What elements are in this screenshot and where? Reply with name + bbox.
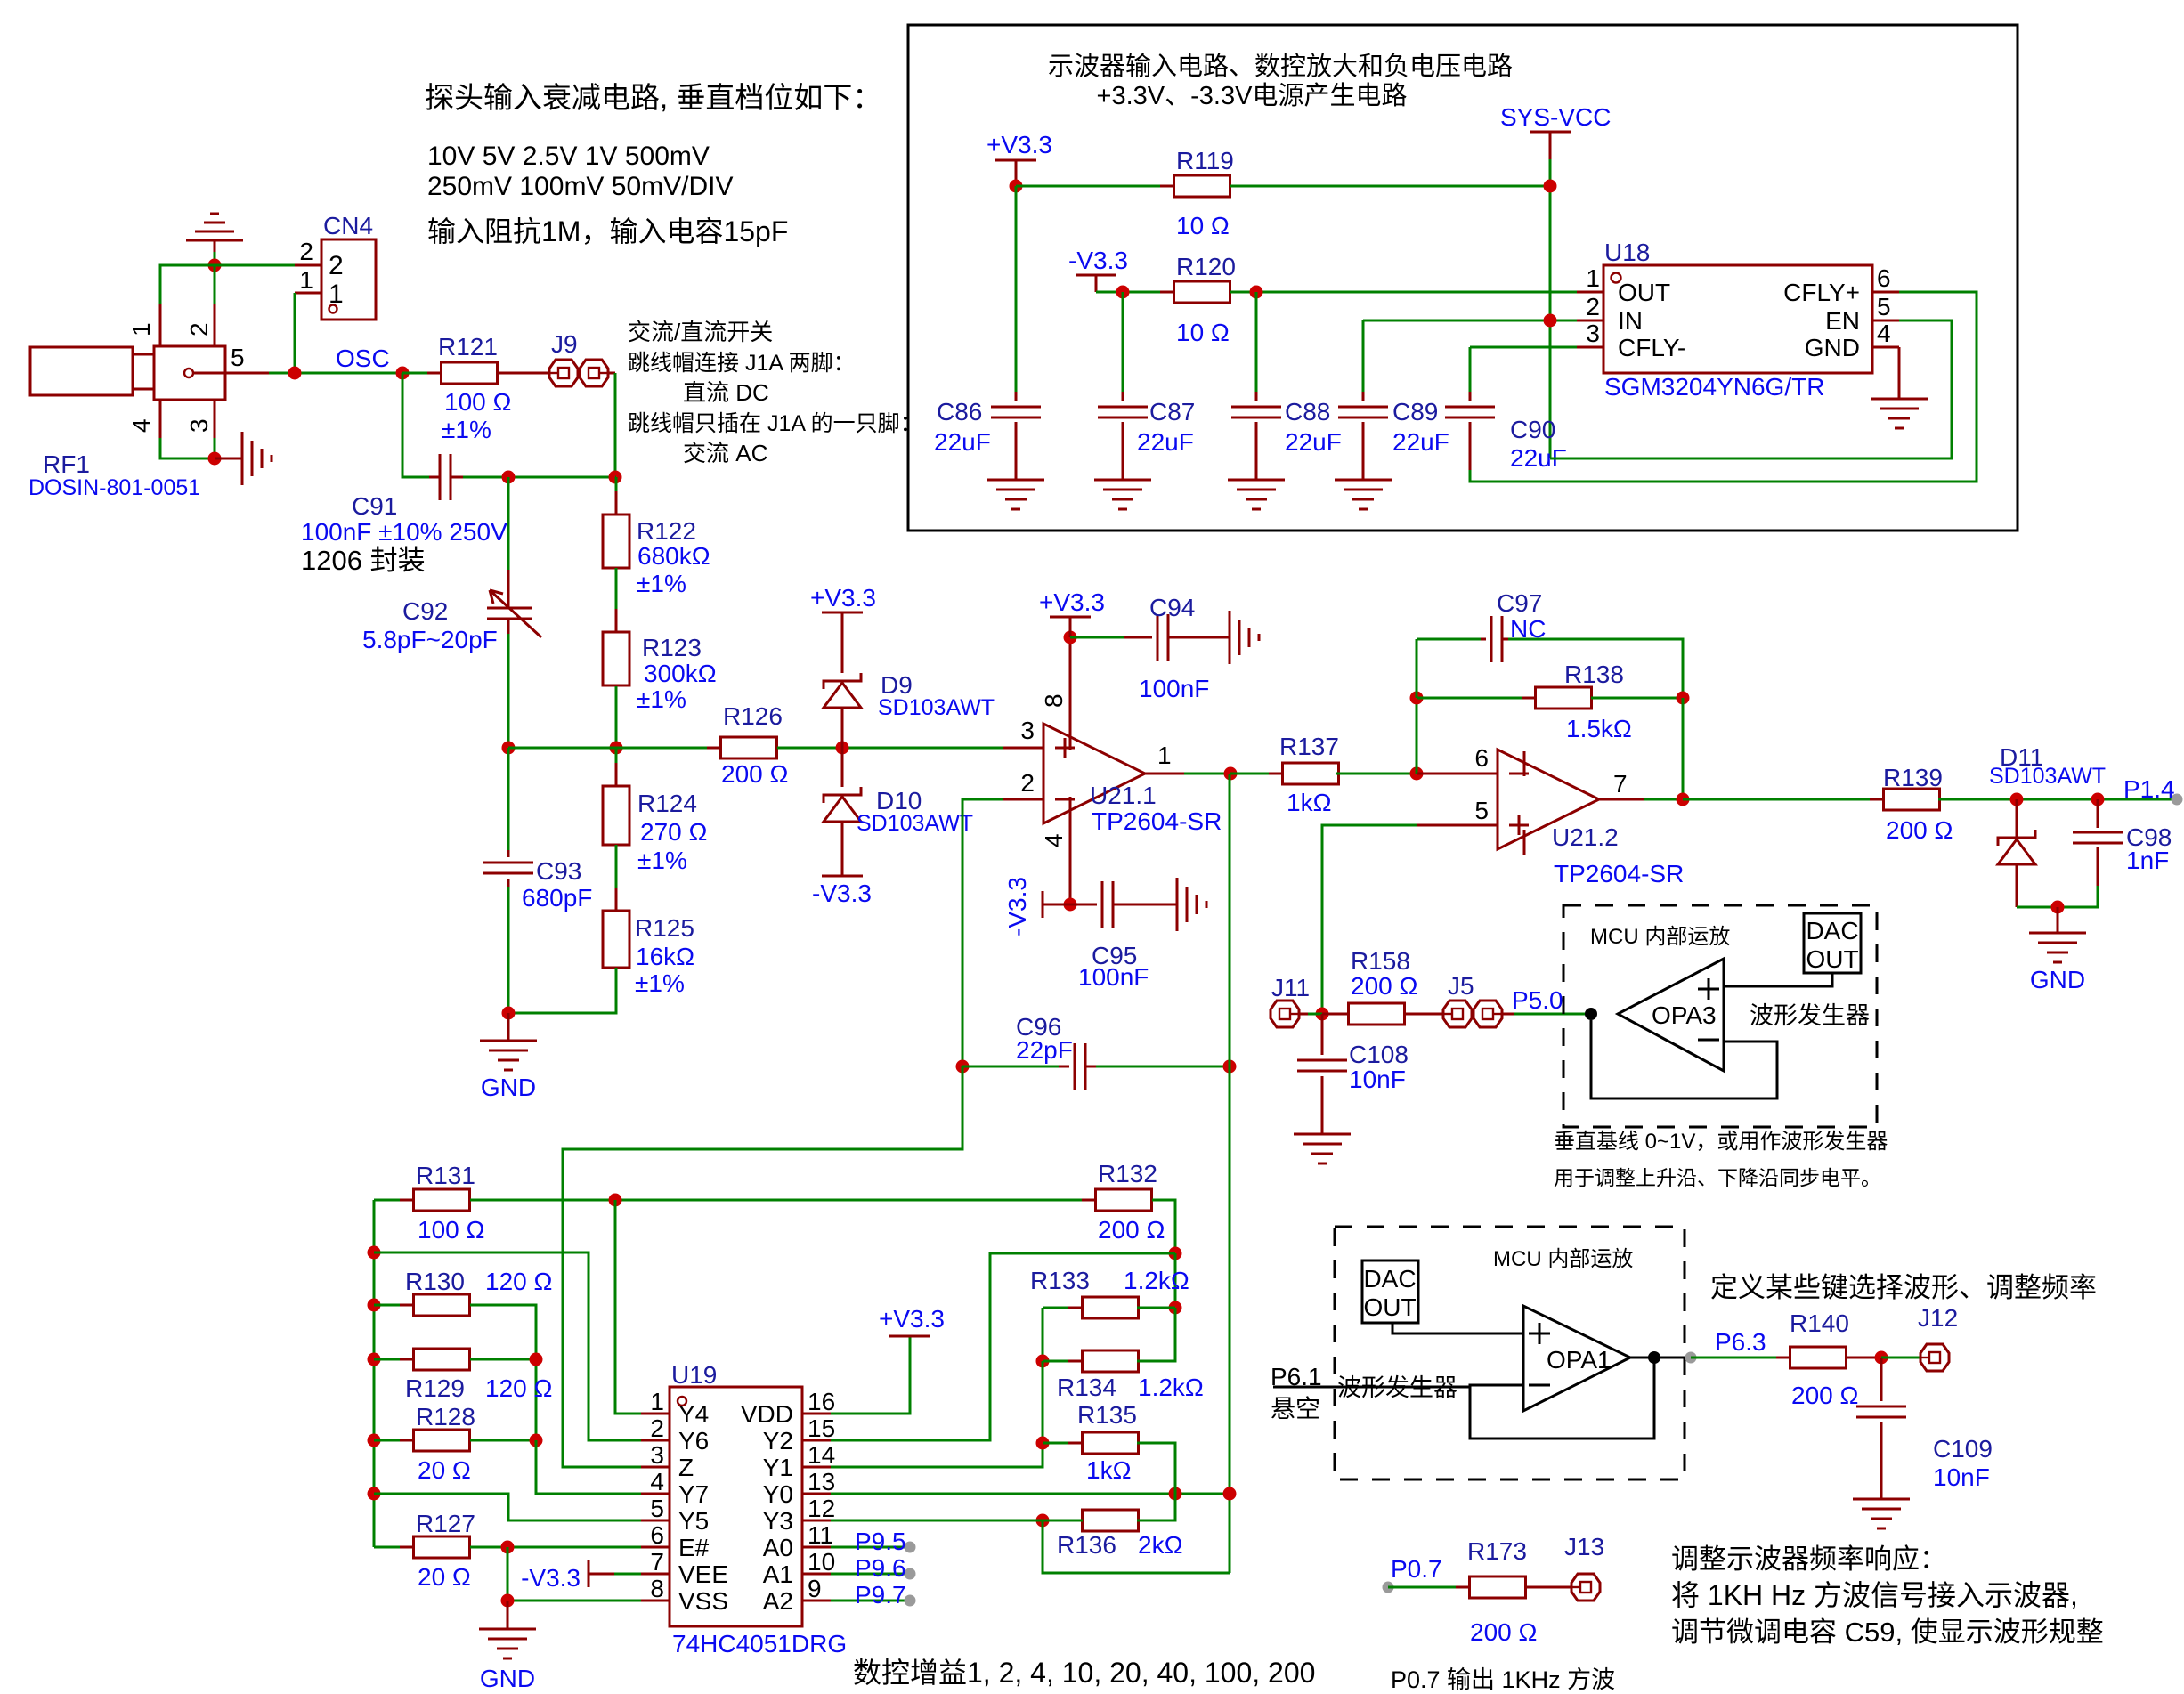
resistor R121 — [427, 372, 511, 375]
svg-text:P0.7 输出 1KHz 方波: P0.7 输出 1KHz 方波 — [1391, 1666, 1615, 1693]
wire — [1308, 1013, 1322, 1016]
op-amp OPA1 (points right) — [1523, 1306, 1630, 1411]
svg-text:R129: R129 — [405, 1374, 465, 1402]
wire Y3 to R136 — [831, 1520, 1043, 1522]
resistor R133 — [1068, 1307, 1152, 1309]
wire ground to node A — [214, 252, 216, 265]
C97 left lead — [1481, 638, 1486, 641]
C92 top lead — [507, 570, 510, 608]
C91 right lead — [451, 476, 463, 479]
J11 lead — [1299, 1013, 1308, 1016]
jumper pad J5 pin1 — [1443, 1001, 1472, 1027]
wire OSC down to C91 — [402, 373, 429, 477]
svg-text:OPA1: OPA1 — [1547, 1346, 1612, 1374]
wire R133 left — [1043, 1307, 1083, 1309]
lead -V3.3 — [589, 1573, 614, 1576]
junction C87 tap — [1116, 286, 1130, 299]
C88 bottom lead — [1255, 422, 1258, 480]
svg-text:MCU 内部运放: MCU 内部运放 — [1493, 1247, 1633, 1271]
ground lead — [2057, 907, 2059, 933]
wire R131 to R132 — [470, 1199, 1096, 1202]
wire C97 left — [1417, 638, 1481, 641]
U18 pin1 stub — [1577, 291, 1603, 294]
diode D11 SD103AWT — [1998, 830, 2035, 846]
svg-text:R123: R123 — [642, 634, 702, 661]
junction VSS node — [501, 1594, 515, 1608]
svg-text:22pF: 22pF — [1016, 1036, 1073, 1064]
U19 pin1 stub — [641, 1413, 670, 1415]
resistor R158 — [1335, 1013, 1418, 1016]
junction rail R128 — [368, 1434, 381, 1447]
svg-text:SYS-VCC: SYS-VCC — [1500, 103, 1611, 131]
RF1 pin2 lead — [214, 304, 216, 346]
resistor R129 — [400, 1358, 483, 1361]
wire C90 top — [1469, 347, 1472, 392]
RF1 pin5 lead — [193, 372, 269, 375]
U18 pin3 stub — [1577, 346, 1603, 349]
svg-text:22uF: 22uF — [1137, 428, 1194, 456]
svg-text:±1%: ±1% — [637, 685, 686, 713]
wire R135 left — [1043, 1442, 1083, 1445]
wire C86 top — [1015, 186, 1018, 392]
resistor R140 — [1776, 1357, 1860, 1359]
svg-text:DAC: DAC — [1363, 1265, 1416, 1293]
svg-text:数控增益1, 2, 4, 10, 20, 40, 100,: 数控增益1, 2, 4, 10, 20, 40, 100, 200 — [853, 1657, 1315, 1689]
capacitor C109 — [1856, 1406, 1906, 1417]
capacitor C95 — [1102, 881, 1113, 928]
svg-text:U21.2: U21.2 — [1552, 823, 1619, 851]
U19 pin5 stub — [641, 1520, 670, 1522]
svg-text:Y4: Y4 — [678, 1400, 709, 1428]
svg-text:R131: R131 — [416, 1162, 475, 1189]
wire P6.3 to R140 — [1691, 1357, 1790, 1359]
wire R130 right down — [470, 1305, 536, 1440]
junction R128/R130 node — [530, 1434, 543, 1447]
node OPA1 feedback — [1648, 1351, 1660, 1364]
svg-text:E#: E# — [678, 1534, 710, 1561]
capacitor C96 — [1075, 1043, 1085, 1090]
svg-text:22uF: 22uF — [934, 428, 991, 456]
svg-text:CFLY+: CFLY+ — [1783, 279, 1860, 306]
svg-text:250mV 100mV 50mV/DIV: 250mV 100mV 50mV/DIV — [427, 172, 734, 201]
svg-text:1.2kΩ: 1.2kΩ — [1124, 1267, 1189, 1294]
svg-text:1: 1 — [329, 280, 344, 309]
C108 bottom lead — [1321, 1076, 1324, 1134]
svg-text:22uF: 22uF — [1285, 428, 1342, 456]
stub — [1095, 275, 1098, 292]
dashed box MCU internal op-amp OPA1 — [1335, 1227, 1685, 1479]
svg-text:GND: GND — [1805, 334, 1860, 361]
U18 pin2 stub — [1577, 320, 1603, 322]
op-amp U21.1 — [1043, 724, 1145, 823]
svg-text:15: 15 — [808, 1414, 835, 1442]
U21.2 pin6 stub — [1417, 773, 1498, 775]
svg-text:C90: C90 — [1510, 416, 1555, 443]
wire rail right down — [1682, 698, 1685, 799]
svg-text:200 Ω: 200 Ω — [1791, 1382, 1858, 1409]
svg-text:CN4: CN4 — [323, 212, 373, 239]
wire DAC OUT to OPA1 + input — [1392, 1323, 1523, 1333]
C89 bottom lead — [1362, 422, 1365, 480]
svg-text:120 Ω: 120 Ω — [485, 1268, 552, 1295]
op-amp U21.2 — [1498, 750, 1599, 849]
stub -V3.3 to pin4 — [1043, 904, 1070, 906]
C98 top lead — [2097, 799, 2099, 828]
C94 left lead — [1124, 636, 1152, 639]
resistor R128 — [400, 1439, 483, 1442]
svg-text:U18: U18 — [1604, 239, 1650, 266]
svg-text:R119: R119 — [1176, 147, 1234, 174]
wire R132 to node — [1152, 1200, 1175, 1253]
junction C92 tap — [502, 471, 516, 484]
junction C96 left — [956, 1060, 970, 1074]
resistor R173 — [1456, 1586, 1539, 1589]
ground (inverted) above RF1 — [186, 214, 243, 240]
svg-text:6: 6 — [1877, 264, 1891, 292]
net endpoint P9.6 — [905, 1568, 916, 1580]
capacitor C92 (variable) — [487, 608, 532, 619]
junction U21.2 output — [1677, 793, 1690, 806]
junction rail R130 — [368, 1299, 381, 1312]
svg-text:10nF: 10nF — [1933, 1463, 1990, 1491]
svg-text:SD103AWT: SD103AWT — [878, 695, 995, 720]
svg-text:200 Ω: 200 Ω — [1470, 1618, 1537, 1646]
power symbol +V3.3 bar at pin8 — [1050, 616, 1091, 619]
junction node A — [208, 259, 222, 272]
svg-text:J9: J9 — [551, 330, 578, 358]
box DAC OUT (OPA1) — [1362, 1260, 1418, 1323]
wire Y2 to R132 node — [831, 1253, 1175, 1440]
power symbol -V3.3 bar at VEE — [588, 1560, 590, 1587]
svg-text:300kΩ: 300kΩ — [644, 660, 717, 687]
U21.2 output lead — [1599, 798, 1644, 801]
svg-text:OUT: OUT — [1806, 945, 1858, 973]
lead junction to D10 — [841, 748, 844, 787]
svg-text:OUT: OUT — [1363, 1293, 1416, 1321]
power symbol SYS-VCC bar — [1530, 131, 1571, 134]
wire RF1 pin3 down — [214, 438, 216, 458]
wire output to R139 — [1683, 798, 1884, 801]
jumper pad J13 — [1571, 1574, 1600, 1601]
resistor R120 — [1160, 291, 1244, 294]
wire rail left up — [1416, 698, 1418, 774]
ground at U18 pin4 — [1871, 399, 1928, 428]
net endpoint P0.7 — [1383, 1582, 1394, 1593]
junction Y3 at R136 — [1036, 1514, 1050, 1528]
wire U21.1 pin2 to C96 — [962, 799, 1003, 1066]
U19 pin4 stub — [641, 1493, 670, 1495]
junction R138 left — [1410, 692, 1424, 705]
junction pin8 C94 node — [1064, 631, 1077, 644]
svg-text:+V3.3: +V3.3 — [1039, 588, 1105, 616]
svg-text:Z: Z — [678, 1454, 694, 1481]
svg-text:Y2: Y2 — [763, 1427, 793, 1455]
wire R136 right up — [1137, 1494, 1175, 1520]
wire A0 to P9.5 — [831, 1546, 910, 1549]
power symbol -V3.3 bar in box — [1076, 274, 1116, 277]
svg-text:16: 16 — [808, 1388, 835, 1415]
svg-text:VDD: VDD — [741, 1400, 793, 1428]
wire OPA1 output — [1630, 1357, 1691, 1359]
wire R133 left down — [1042, 1308, 1044, 1361]
wire P0.7 to R173 — [1388, 1586, 1470, 1589]
junction RF1 ground node — [208, 452, 222, 466]
resistor R135 — [1068, 1442, 1152, 1445]
svg-text:C89: C89 — [1392, 398, 1438, 426]
svg-text:4: 4 — [650, 1468, 664, 1495]
svg-text:跳线帽连接 J1A 两脚：: 跳线帽连接 J1A 两脚： — [628, 351, 856, 376]
svg-text:DAC: DAC — [1806, 917, 1858, 944]
wire R123 to main row — [615, 686, 618, 748]
wire SYS-VCC rail down — [1549, 159, 1552, 458]
wire left rail — [373, 1200, 376, 1547]
junction Y0 at rail — [1223, 1487, 1237, 1501]
wire C89 top — [1362, 320, 1365, 392]
svg-text:SD103AWT: SD103AWT — [1989, 764, 2106, 789]
junction R129 right — [530, 1353, 543, 1366]
svg-text:6: 6 — [650, 1521, 664, 1549]
junction Y4 feed — [609, 1194, 622, 1207]
svg-text:±1%: ±1% — [637, 570, 686, 597]
C89 top lead — [1362, 392, 1365, 401]
svg-text:波形发生器: 波形发生器 — [1337, 1374, 1457, 1401]
svg-text:±1%: ±1% — [635, 969, 685, 997]
wire rail to R131 — [374, 1199, 414, 1202]
wire R120 to U18 OUT — [1230, 291, 1577, 294]
wire R124 to R125 — [615, 845, 618, 911]
svg-text:P5.0: P5.0 — [1512, 986, 1563, 1014]
C87 bottom lead — [1122, 422, 1124, 480]
svg-text:RF1: RF1 — [43, 450, 90, 478]
junction +V3.3 node — [1010, 180, 1023, 193]
wire C91 to J9 node — [463, 476, 615, 479]
svg-text:3: 3 — [1020, 717, 1035, 744]
svg-text:10V 5V 2.5V 1V 500mV: 10V 5V 2.5V 1V 500mV — [427, 142, 710, 171]
resistor R126 — [707, 747, 791, 750]
svg-text:P6.1: P6.1 — [1271, 1363, 1322, 1390]
svg-text:Y7: Y7 — [678, 1480, 709, 1508]
wire OSC node — [269, 372, 402, 375]
svg-text:6: 6 — [1474, 744, 1489, 772]
R158 left lead — [1322, 1013, 1349, 1016]
wire R139 to P1.4 — [1938, 798, 2177, 801]
svg-text:U21.1: U21.1 — [1090, 782, 1157, 809]
wire EN to SYS-VCC rail — [1550, 320, 1952, 458]
svg-text:5: 5 — [1474, 797, 1489, 824]
U19 pin2 stub — [641, 1439, 670, 1442]
wire C92 to main row — [507, 634, 510, 749]
svg-text:P9.6: P9.6 — [855, 1554, 906, 1582]
svg-text:R121: R121 — [438, 333, 498, 361]
wire Y1 to R135 node — [831, 1443, 1043, 1467]
svg-text:SD103AWT: SD103AWT — [857, 811, 973, 836]
CN4 pin1 stub — [295, 292, 321, 295]
svg-text:C91: C91 — [352, 492, 397, 520]
svg-text:7: 7 — [1613, 770, 1628, 798]
svg-text:5: 5 — [650, 1495, 664, 1522]
svg-text:-V3.3: -V3.3 — [521, 1564, 581, 1592]
C98 bottom lead — [2097, 847, 2099, 886]
diode D10 SD103AWT — [824, 787, 861, 803]
C90 bottom lead — [1469, 422, 1472, 470]
svg-text:J12: J12 — [1918, 1304, 1958, 1332]
junction R135 left — [1036, 1437, 1050, 1450]
C86 bottom lead — [1015, 422, 1018, 480]
wire A1 to P9.6 — [831, 1573, 910, 1576]
U19 pin3 stub — [641, 1466, 670, 1469]
svg-text:波形发生器: 波形发生器 — [1750, 1002, 1870, 1029]
svg-text:20 Ω: 20 Ω — [418, 1456, 471, 1484]
svg-text:74HC4051DRG: 74HC4051DRG — [672, 1630, 847, 1658]
RF1 pin3 lead — [214, 400, 216, 438]
jumper pad J12 — [1920, 1344, 1949, 1371]
wire R136 left bottom loop — [1043, 1520, 1230, 1573]
svg-text:用于调整上升沿、下降沿同步电平。: 用于调整上升沿、下降沿同步电平。 — [1554, 1166, 1881, 1189]
capacitor C88 — [1231, 407, 1281, 417]
connector RF1 body — [30, 347, 133, 395]
wire C89 to U18 IN — [1363, 320, 1577, 322]
wire OSC to R121 — [402, 372, 442, 375]
ground GND at D11 — [2029, 933, 2086, 962]
svg-text:3: 3 — [650, 1441, 664, 1469]
D11 top lead — [2016, 799, 2018, 838]
capacitor C93 — [483, 863, 533, 873]
svg-text:2: 2 — [185, 322, 213, 336]
resistor R131 — [400, 1199, 483, 1202]
svg-text:2: 2 — [299, 238, 313, 265]
junction R132/Y2 node — [1169, 1247, 1182, 1260]
svg-text:1.2kΩ: 1.2kΩ — [1138, 1374, 1204, 1401]
wire output to junction — [1644, 798, 1683, 801]
wire -V3.3 to R120 — [1096, 291, 1174, 294]
wire P6.1 line — [1273, 1386, 1470, 1389]
svg-text:Y0: Y0 — [763, 1480, 793, 1508]
ground at C86 — [987, 480, 1044, 509]
U18 pin4 stub — [1872, 346, 1899, 349]
net endpoint P9.7 — [905, 1595, 916, 1607]
junction R133 right — [1169, 1301, 1182, 1315]
svg-text:+3.3V、-3.3V电源产生电路: +3.3V、-3.3V电源产生电路 — [1097, 81, 1408, 110]
svg-text:调节微调电容 C59, 使显示波形规整: 调节微调电容 C59, 使显示波形规整 — [1671, 1617, 2104, 1648]
resistor R132 — [1082, 1199, 1165, 1202]
svg-text:NC: NC — [1510, 615, 1546, 643]
U18 pin4 ground lead — [1898, 347, 1901, 399]
C96 right lead — [1085, 1066, 1096, 1068]
svg-text:10nF: 10nF — [1349, 1066, 1406, 1093]
svg-text:OPA3: OPA3 — [1652, 1001, 1717, 1029]
ground at C87 — [1094, 480, 1151, 509]
svg-text:Y1: Y1 — [763, 1454, 793, 1481]
svg-text:C92: C92 — [402, 597, 448, 625]
U19 pin8 stub — [641, 1600, 670, 1602]
svg-text:5: 5 — [1877, 293, 1891, 320]
svg-text:C87: C87 — [1149, 398, 1195, 426]
junction C98 — [2091, 793, 2105, 806]
svg-text:R139: R139 — [1883, 764, 1943, 791]
svg-text:将 1KH Hz 方波信号接入示波器,: 将 1KH Hz 方波信号接入示波器, — [1671, 1579, 2078, 1611]
node OPA3 input — [1585, 1008, 1597, 1020]
wire D11/C98 to ground node — [2017, 886, 2098, 907]
svg-text:R125: R125 — [635, 914, 694, 942]
svg-text:VEE: VEE — [678, 1560, 728, 1588]
wire E# node to U19 VSS — [507, 1547, 641, 1601]
svg-text:8: 8 — [650, 1575, 664, 1602]
svg-text:2: 2 — [329, 251, 344, 280]
capacitor C94 — [1157, 614, 1168, 661]
junction Y0 at R135/R136 — [1169, 1487, 1182, 1501]
wire C97 right to rail — [1508, 639, 1683, 698]
svg-text:2: 2 — [650, 1414, 664, 1442]
D11 bottom lead — [2016, 864, 2018, 907]
R173 right lead — [1525, 1586, 1571, 1589]
junction D9/D10 clamp — [836, 742, 849, 755]
svg-text:13: 13 — [808, 1468, 835, 1495]
wire to VEE — [614, 1573, 641, 1576]
svg-text:R128: R128 — [416, 1403, 475, 1431]
svg-text:垂直基线 0~1V，或用作波形发生器: 垂直基线 0~1V，或用作波形发生器 — [1554, 1130, 1888, 1154]
svg-text:交流 AC: 交流 AC — [683, 440, 767, 466]
wire R138 row left — [1417, 697, 1536, 700]
svg-text:交流/直流开关: 交流/直流开关 — [628, 319, 773, 345]
U19 pin9 stub — [802, 1600, 831, 1602]
svg-text:A0: A0 — [763, 1534, 793, 1561]
dashed box MCU internal op-amp OPA3 — [1563, 905, 1877, 1127]
svg-text:9: 9 — [808, 1575, 822, 1602]
svg-text:1kΩ: 1kΩ — [1086, 1456, 1132, 1484]
svg-text:C93: C93 — [536, 857, 581, 885]
svg-text:J11: J11 — [1271, 974, 1310, 1001]
resistor R119 — [1160, 185, 1244, 188]
svg-text:10 Ω: 10 Ω — [1176, 212, 1230, 239]
lead +V3.3 to D9 — [841, 612, 844, 673]
svg-text:R138: R138 — [1564, 661, 1624, 688]
ground at C95 — [1177, 878, 1206, 931]
svg-text:R158: R158 — [1351, 947, 1410, 975]
svg-text:DOSIN-801-0051: DOSIN-801-0051 — [28, 475, 200, 500]
wire R136 left — [1043, 1520, 1083, 1522]
junction rail Y7/Y5 feed — [368, 1487, 381, 1501]
box DAC OUT (OPA3) — [1804, 913, 1861, 973]
junction main row at C93 — [502, 742, 516, 755]
svg-text:16kΩ: 16kΩ — [636, 943, 694, 970]
ground at C88 — [1228, 480, 1285, 509]
capacitor C89 — [1338, 407, 1388, 417]
resistor R138 — [1522, 697, 1605, 700]
power symbol +V3.3 bar at VDD — [889, 1335, 930, 1338]
diode D9 SD103AWT — [824, 673, 861, 689]
C88 top lead — [1255, 392, 1258, 401]
svg-text:P9.5: P9.5 — [855, 1528, 906, 1555]
C109 top lead — [1880, 1358, 1883, 1401]
U18 pin5 stub — [1872, 320, 1899, 322]
op-amp OPA3 (points left) — [1618, 959, 1724, 1071]
wire R119 to SYS-VCC — [1230, 185, 1550, 188]
C91 left lead — [429, 476, 440, 479]
wire OPA3 feedback loop — [1591, 1020, 1777, 1098]
svg-text:100nF ±10% 250V: 100nF ±10% 250V — [301, 518, 507, 546]
wire C90 to U18 CFLY- — [1470, 346, 1577, 349]
svg-text:C108: C108 — [1349, 1041, 1409, 1068]
box power supply section border — [908, 25, 2018, 531]
wire main row to R124 — [615, 748, 618, 786]
lead to ground — [215, 458, 242, 460]
svg-text:4: 4 — [127, 418, 155, 433]
U19 pin12 stub — [802, 1520, 831, 1522]
svg-text:200 Ω: 200 Ω — [1886, 816, 1953, 844]
C95 left lead — [1070, 904, 1097, 906]
U21.2 pin5 stub — [1417, 824, 1498, 827]
svg-text:GND: GND — [481, 1074, 536, 1101]
